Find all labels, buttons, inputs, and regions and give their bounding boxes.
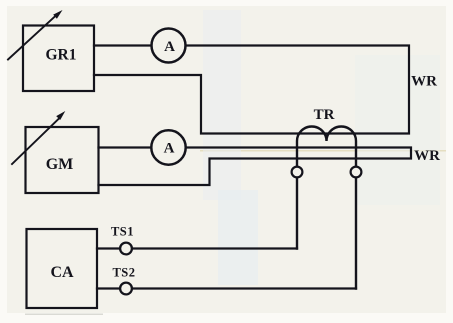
svg-text:A: A [164,141,175,157]
svg-text:TS1: TS1 [111,225,134,239]
svg-text:CA: CA [50,264,74,281]
svg-text:GM: GM [46,156,74,173]
svg-text:GR1: GR1 [46,46,77,63]
svg-text:TS2: TS2 [112,266,135,280]
svg-text:WR: WR [411,74,437,90]
svg-text:WR: WR [414,148,440,164]
svg-text:A: A [164,39,175,55]
svg-text:TR: TR [314,107,335,123]
